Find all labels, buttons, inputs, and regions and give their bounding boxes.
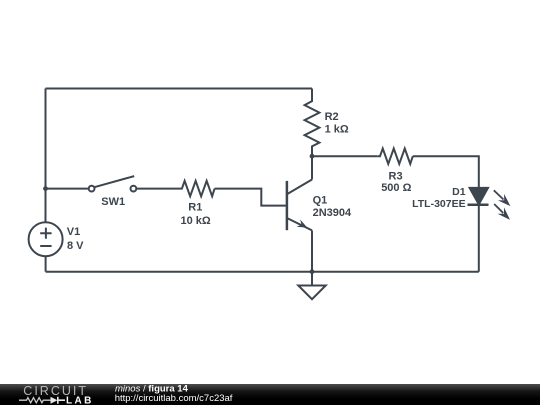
voltage source V1 — [29, 222, 63, 256]
LED D1 — [468, 188, 511, 220]
wire bottom rail — [46, 271, 479, 273]
wire to switch — [46, 188, 89, 190]
svg-text:R1: R1 — [188, 202, 202, 214]
svg-text:R3: R3 — [389, 170, 403, 182]
svg-text:R2: R2 — [325, 111, 339, 123]
node junction left — [43, 186, 48, 191]
wire junction to R3 — [312, 155, 377, 157]
svg-text:V1: V1 — [67, 226, 80, 238]
wire SW1 to R1 — [136, 188, 176, 190]
wire left rail — [45, 89, 47, 223]
wire top rail — [46, 88, 313, 90]
resistor R3 — [377, 149, 413, 164]
wire LED to bottom rail — [478, 205, 480, 272]
svg-text:Q1: Q1 — [313, 194, 328, 206]
svg-text:http://circuitlab.com/c7c23af: http://circuitlab.com/c7c23af — [115, 393, 233, 404]
node junction emitter-ground — [310, 269, 315, 274]
resistor R2 — [305, 89, 320, 157]
wire emitter down — [311, 230, 313, 271]
svg-text:2N3904: 2N3904 — [313, 207, 352, 219]
footer bar — [0, 384, 540, 405]
svg-text:10 kΩ: 10 kΩ — [181, 215, 211, 227]
resistor R1 — [176, 181, 215, 196]
svg-text:500 Ω: 500 Ω — [381, 182, 411, 194]
ground — [298, 272, 325, 300]
svg-text:LTL-307EE: LTL-307EE — [412, 198, 465, 210]
svg-text:LAB: LAB — [66, 395, 94, 405]
wire V1 bottom — [45, 256, 47, 272]
svg-text:1 kΩ: 1 kΩ — [325, 123, 349, 135]
svg-text:8 V: 8 V — [67, 240, 84, 252]
logo squiggle wire — [19, 398, 51, 403]
transistor Q1 — [287, 180, 312, 231]
switch SW1 — [89, 176, 137, 191]
wire collector up — [311, 156, 313, 179]
logo diode — [51, 397, 58, 404]
wire R3 to LED — [413, 156, 479, 188]
svg-text:SW1: SW1 — [101, 196, 125, 208]
wire R1 to base — [215, 189, 286, 206]
node junction collector — [310, 154, 315, 159]
svg-text:D1: D1 — [452, 186, 466, 198]
